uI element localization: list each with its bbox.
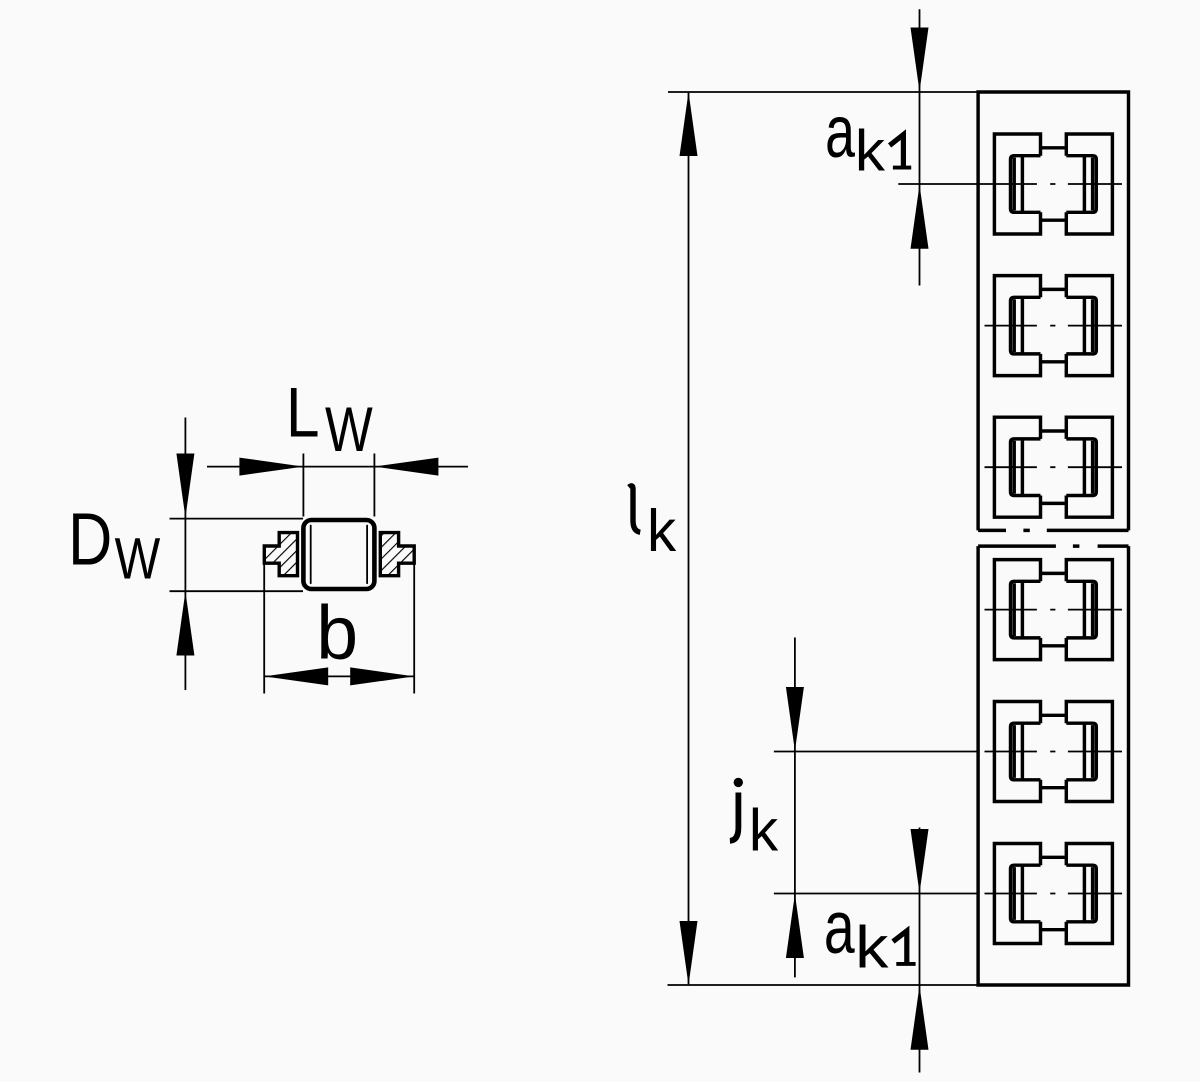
svg-text:W: W: [115, 526, 161, 591]
svg-text:k: k: [855, 915, 889, 981]
svg-text:b: b: [316, 591, 358, 675]
svg-text:L: L: [286, 373, 320, 451]
svg-text:a: a: [824, 885, 855, 969]
svg-text:k: k: [647, 497, 677, 564]
svg-text:D: D: [68, 498, 112, 581]
svg-text:k: k: [749, 798, 779, 863]
svg-text:a: a: [825, 89, 856, 173]
svg-text:W: W: [325, 395, 373, 466]
svg-text:k: k: [855, 119, 886, 182]
